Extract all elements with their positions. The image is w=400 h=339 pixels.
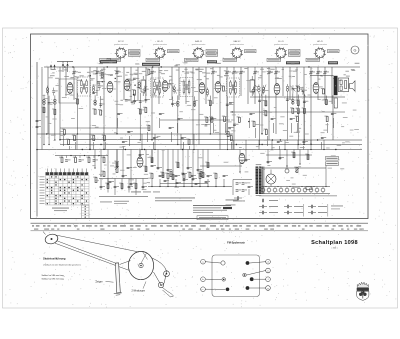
AF network part 2	[105, 183, 109, 189]
wire: drop below ground bus x=246	[245, 150, 247, 163]
coupling coil L46	[138, 80, 141, 89]
junction dot low 21	[239, 171, 240, 172]
antenna coupling capacitor C1	[36, 120, 41, 122]
wire: tone rail	[55, 155, 108, 157]
junction dot 2	[48, 144, 49, 145]
wire: drop x=212	[213, 123, 215, 133]
voltage label box of V5	[267, 58, 281, 61]
resistor R304	[75, 98, 79, 104]
resistor R54	[181, 173, 185, 179]
volume potentiometer R30	[114, 166, 119, 173]
wire: drop to rail x=49.0	[48, 106, 50, 144]
wire: AF coupling	[151, 150, 153, 164]
wire: inter-bus drop x=155	[154, 134, 156, 150]
grid resistor R519	[321, 88, 325, 94]
resistor R58	[213, 173, 217, 179]
AF network part 6	[133, 183, 137, 189]
wire: AF drop x=136	[135, 179, 137, 196]
parts list strip top rule	[31, 222, 369, 224]
wire: feeder from HT bus at x=255	[254, 67, 256, 104]
AF network part 1	[100, 186, 105, 188]
wire: drop x=170	[171, 132, 173, 142]
wire: lower link rail right	[266, 154, 312, 156]
wire: drop below ground bus x=152	[151, 150, 153, 164]
switch table contact dots	[47, 176, 88, 204]
detector coil L9	[250, 76, 255, 96]
IF transformer S1	[78, 77, 91, 96]
wire: inter-bus drop x=181	[180, 134, 182, 150]
wire: pin link 14	[261, 85, 266, 96]
tone network part 5	[79, 156, 84, 162]
capacitor C114	[181, 137, 186, 139]
wire: AVC sub rail	[60, 127, 150, 129]
wire: feeder from HT bus at x=193	[192, 67, 194, 145]
wire: bottom ground bus	[99, 196, 148, 198]
wire: feeder from HT bus at x=66	[65, 67, 67, 96]
FM unit solder lug G2	[246, 286, 250, 290]
svg-text:EAF 41: EAF 41	[195, 40, 203, 43]
coupling capacitor C46	[151, 165, 156, 167]
resistor R103	[72, 135, 76, 141]
svg-text:Seillauf ca 580 mm lang: Seillauf ca 580 mm lang	[42, 275, 65, 277]
capacitor C317	[286, 99, 291, 101]
resistor R109	[146, 125, 150, 131]
second resistor R345	[92, 108, 96, 114]
FM unit solder lug D	[246, 261, 250, 265]
capacitor C320	[303, 101, 308, 103]
junction dot dial bus x=224	[223, 186, 224, 187]
junction dot low 25	[286, 165, 287, 166]
AF amplifier tube V7	[137, 157, 143, 167]
mixer area extra parts	[90, 69, 150, 103]
wire: drop x=128	[129, 136, 131, 146]
wire: drop below ground bus x=280	[279, 150, 281, 161]
trimmer capacitor C72	[150, 71, 156, 75]
motorboard label row	[131, 191, 160, 194]
svg-text:EC 92: EC 92	[118, 41, 124, 43]
wire: drop below ground bus x=300	[299, 150, 301, 165]
antenna series capacitor C2	[36, 126, 41, 128]
node G (circled letter)	[351, 46, 359, 54]
wire: component stub x=145.9	[145, 94, 147, 104]
tone network part 6	[84, 155, 85, 156]
FM unit terminal d (circled)	[250, 259, 271, 264]
coupling coil L53	[258, 85, 261, 94]
capacitor C410	[157, 167, 162, 169]
capacitor C417	[192, 178, 197, 180]
voltage label box of V3	[185, 58, 199, 61]
voltage selector label box	[326, 162, 339, 166]
parts list strip text row 1	[32, 225, 361, 226]
wire: inter-bus drop x=90	[89, 134, 91, 150]
resistor R414	[175, 162, 179, 168]
wire: drop x=68	[69, 146, 71, 150]
wire: drop below ground bus x=183	[182, 150, 184, 177]
tone network part 2	[65, 156, 70, 162]
wire: component stub x=177.8	[177, 95, 179, 107]
coupling coil L43	[92, 84, 95, 93]
mains voltage note text	[226, 200, 239, 206]
switch table row labels	[40, 176, 45, 204]
IF transformer S2	[151, 78, 164, 97]
FM unit terminal c (circled)	[201, 287, 226, 292]
wire: component stub x=134.6	[134, 94, 136, 105]
coupling coil L55	[286, 84, 289, 93]
resistor R115	[186, 139, 190, 145]
trimmer capacitor C67	[115, 71, 121, 75]
capacitor C307	[133, 100, 138, 102]
capacitor C127	[321, 137, 326, 139]
capacitor C107	[122, 141, 127, 143]
trimmer capacitor C96	[323, 71, 329, 75]
wire: feeder from HT bus at x=325	[324, 67, 326, 104]
pin connection label box of V6	[328, 50, 340, 53]
resistor R420	[205, 162, 209, 168]
wire: drop to dial-lamp bus x=208	[207, 179, 209, 187]
svg-text:( 306 ): ( 306 )	[332, 247, 338, 249]
capacitor C302	[48, 102, 53, 104]
capacitor C124	[290, 118, 295, 120]
wire: drop below ground bus x=131	[130, 150, 132, 187]
junction dot dial bus x=152	[151, 186, 152, 187]
antenna terminal group	[50, 62, 73, 73]
coupling coil L50	[206, 88, 209, 97]
wire: inter-bus drop x=233	[232, 140, 234, 150]
junction dot interbus x=142	[141, 149, 142, 150]
wire: feeder from HT bus at x=304	[303, 67, 305, 145]
wire: AVC bus	[37, 133, 233, 135]
capacitor C306	[99, 104, 104, 106]
grid resistor R505	[132, 89, 136, 95]
capacitor C113	[177, 118, 182, 120]
wire: drop x=158	[159, 118, 161, 128]
wire: left rail x=42	[41, 67, 43, 150]
wire: component stub x=265.9	[265, 95, 267, 107]
wire: component stub x=210.3	[209, 96, 211, 107]
resistor R52	[165, 173, 169, 179]
wire: feeder from HT bus at x=318	[317, 67, 319, 100]
wire: drop to rail x=298.2	[297, 106, 299, 144]
tube base diagram V2 EF 41 (viewed from below)	[153, 41, 167, 59]
junction dots on buses	[46, 66, 336, 150]
wire: drop to dial-lamp bus x=168	[167, 179, 169, 187]
wire: feeder from HT bus at x=269	[268, 67, 270, 140]
dial cord: tuning shaft pulley	[43, 232, 59, 246]
wire: feeder from HT bus at x=179	[178, 67, 180, 100]
junction dot 3	[54, 139, 55, 140]
antenna input wire	[36, 62, 38, 217]
resistor R313	[208, 100, 212, 106]
dial cord: tuning drum	[128, 251, 153, 279]
junction dot interbus x=194	[193, 149, 194, 150]
second resistor R343	[52, 109, 56, 115]
AF network part 5	[128, 186, 133, 188]
junction dot low 1	[94, 167, 95, 168]
capacitor C51	[159, 175, 164, 177]
wire: AF drop x=122	[121, 179, 123, 191]
FM unit terminal g (circled)	[250, 286, 271, 291]
diode section V4b	[215, 82, 221, 93]
capacitor C422	[245, 159, 250, 161]
svg-text:Schaltplan 1098: Schaltplan 1098	[311, 240, 358, 246]
wire: top HT bus	[44, 66, 360, 68]
second resistor R358	[290, 107, 294, 113]
tube base diagram V4 EAF 42 (viewed from below)	[230, 40, 244, 59]
printing note text block	[193, 205, 232, 213]
FM unit terminal e (circled)	[247, 268, 271, 275]
rectifier V6	[313, 83, 319, 94]
resistor R413	[170, 174, 174, 180]
grid resistor R511	[221, 85, 225, 91]
mains input parts group	[233, 180, 253, 196]
wire: HT to Entbrummer boxes	[261, 167, 326, 169]
second resistor R360	[302, 108, 306, 114]
svg-text:EF 41: EF 41	[157, 41, 163, 43]
tone network part 8	[93, 156, 98, 162]
waveband switch contact table grid	[46, 176, 90, 206]
UKW tuner dashed enclosure	[59, 79, 77, 103]
wire: drop to dial-lamp bus x=192	[191, 179, 193, 187]
wire: feeder from HT bus at x=159	[158, 67, 160, 104]
junction dot on feeder x=227	[226, 133, 228, 135]
pentode V2	[107, 82, 113, 93]
wire: drop below ground bus x=193	[192, 150, 194, 182]
section label box Netzteil	[328, 61, 338, 64]
wire: output transformer drop	[332, 95, 334, 140]
wire: drop to dial-lamp bus x=224	[223, 179, 225, 187]
wire: drop below ground bus x=240	[239, 150, 241, 173]
resistor R419	[200, 172, 204, 178]
capacitor legend columns	[259, 199, 328, 217]
wire: pin link 6	[137, 87, 142, 88]
capacitor C126	[302, 141, 307, 143]
grid capacitor C518	[302, 87, 307, 95]
wire: component stub x=54.9	[54, 95, 56, 105]
wire: AF tube anode	[139, 150, 141, 158]
IF transformer S4	[227, 78, 240, 97]
capacitor C123	[277, 141, 282, 143]
wire: anode line to output transformer	[310, 75, 334, 77]
capacitor C59	[223, 175, 228, 177]
capacitor C57	[207, 175, 212, 177]
parts list strip text row 2	[34, 228, 364, 231]
junction dot dial bus x=168	[167, 186, 168, 187]
wire: screen bus	[250, 96, 345, 98]
second resistor R356	[263, 110, 267, 116]
wire: AF drop x=143	[142, 179, 144, 191]
second resistor R341	[41, 107, 45, 113]
detector area extra parts	[204, 102, 249, 136]
resistor R32	[93, 177, 97, 183]
Gedruckt in Deutschland box	[197, 216, 228, 220]
svg-text:Skalenseilführung: Skalenseilführung	[43, 256, 66, 260]
tube base diagram V5 EL 41 (viewed from below)	[274, 41, 288, 59]
capacitor C122	[271, 118, 276, 120]
FM coil unit outline box	[212, 255, 260, 297]
coil L21	[177, 101, 180, 106]
wire: drop to dial-lamp bus x=200	[199, 179, 201, 187]
capacitor C106	[117, 113, 122, 115]
junction dot dial bus x=216	[215, 186, 216, 187]
FM unit solder lug B	[222, 278, 226, 282]
trimmer capacitor C63	[72, 71, 78, 75]
wire: heater bus	[259, 186, 330, 188]
junction dot dial bus x=160	[159, 186, 160, 187]
wire: pin link 7	[142, 86, 147, 90]
wire: AF drop x=115	[114, 179, 116, 196]
mains label box	[326, 157, 339, 161]
resistor R50	[149, 173, 153, 179]
junction dot interbus x=155	[154, 149, 155, 150]
parts list strip bottom rule	[31, 230, 369, 232]
FM unit solder lug F	[250, 277, 254, 281]
wire: drop x=62	[63, 136, 65, 146]
wire: feeder from HT bus at x=283	[282, 67, 284, 96]
dial cord: drum arm and idler pulleys	[152, 258, 174, 297]
note text lines (spring tension)	[155, 198, 195, 202]
antenna terminal label box	[100, 59, 111, 62]
wire: drop x=332	[333, 118, 335, 128]
wire: pin link 17	[296, 86, 301, 89]
wire: feeder from HT bus at x=297	[296, 67, 298, 104]
coil L28	[292, 99, 295, 104]
wire: component stub x=140.2	[139, 93, 141, 105]
coil L15	[94, 100, 97, 105]
capacitor C416	[187, 167, 192, 169]
wire: pin link 9	[172, 85, 177, 93]
wire: inter-bus drop x=272	[271, 140, 273, 150]
wire: drop below ground bus x=101	[100, 150, 102, 177]
section label box Mischstufe	[142, 63, 160, 66]
tone network part 10	[101, 156, 105, 163]
grid capacitor C504	[98, 83, 103, 91]
junction on antenna line	[36, 149, 38, 151]
wire: component stub x=95.1	[94, 95, 96, 106]
wire: component stub x=326.3	[325, 96, 327, 106]
junction dot on feeder x=262	[261, 133, 263, 135]
wire: feeder from HT bus at x=234	[233, 67, 235, 150]
wire: drop to dial-lamp bus x=152	[151, 179, 153, 187]
pin connection label box of V1	[129, 50, 141, 57]
trimmer capacitor C83	[232, 71, 238, 75]
trimmer capacitor C84	[239, 71, 245, 75]
wire: component stub x=298.2	[297, 95, 299, 107]
wire: component stub x=77.5	[77, 93, 79, 105]
wire: drop below ground bus x=208	[207, 150, 209, 169]
wire: feeder from HT bus at x=131	[130, 67, 132, 100]
lower AF tube V7b	[239, 153, 245, 163]
AF network part 4	[119, 183, 123, 189]
junction dot 11	[177, 144, 178, 145]
svg-text:Seillauf ca 695 mm lang: Seillauf ca 695 mm lang	[42, 279, 65, 281]
note text under switch table	[52, 208, 69, 211]
voltage label box of V1	[107, 58, 121, 61]
wire: drop x=224	[225, 123, 227, 133]
coupling coil L49	[173, 85, 176, 94]
wire: drop below ground bus x=168	[167, 150, 169, 173]
wire: cathode bus	[60, 144, 362, 146]
capacitor C407	[139, 154, 144, 156]
grid capacitor C508	[168, 80, 173, 88]
tone network part 7	[86, 156, 90, 163]
capacitor C129	[331, 113, 336, 115]
wire: pin link 16	[290, 86, 295, 92]
wire: dial lamp bus	[148, 186, 232, 188]
wire: heater strip lower rail	[259, 192, 330, 194]
capacitor C310	[171, 103, 176, 105]
capacitor C108	[127, 131, 132, 133]
tube base diagram V3 EAF 41 (viewed from below)	[192, 40, 206, 59]
second resistor R346	[98, 109, 102, 115]
wire: inter-bus drop x=142	[141, 134, 143, 150]
AF network part 3	[114, 186, 119, 188]
FM unit solder lug C	[226, 288, 230, 292]
wire: drop x=104	[105, 142, 107, 150]
svg-text:( Seillauf von der Skalenschei: ( Seillauf von der Skalenscheibe gesehen…	[43, 264, 81, 266]
tube base diagram V6 AZ 41 (viewed from below)	[313, 40, 327, 59]
resistor R428	[305, 154, 309, 160]
wire: drop below ground bus x=178	[177, 150, 179, 169]
wire: drop below ground bus x=188	[187, 150, 189, 171]
wire: drop to rail x=259.6	[259, 104, 261, 145]
grid capacitor C507	[143, 86, 148, 94]
wire: inter-bus drop x=194	[193, 134, 195, 150]
output pentode V5	[274, 84, 280, 95]
svg-text:EAF 42: EAF 42	[234, 40, 242, 43]
legend item left	[233, 196, 245, 201]
switch wires rising from table	[47, 169, 86, 173]
capacitor C116	[211, 118, 216, 120]
wire: component stub x=259.6	[259, 93, 261, 104]
wire: drop below ground bus x=140	[139, 150, 141, 158]
IF transformer S3	[180, 78, 193, 97]
wire: drop below ground bus x=95	[94, 150, 96, 169]
wire: drop x=278	[279, 146, 281, 150]
pin connection label box of V2	[168, 50, 180, 53]
resistor R404	[114, 161, 118, 167]
junction dot low 3	[107, 183, 108, 184]
wire: inter-bus drop x=259	[258, 140, 260, 150]
pin connection label box of V3	[206, 50, 218, 57]
section label box UKW	[100, 60, 117, 63]
svg-text:Zeiger: Zeiger	[96, 280, 103, 283]
coupling coil L41	[46, 86, 49, 95]
wire: drop x=116	[117, 118, 119, 128]
wire: drop x=122	[123, 146, 125, 150]
wire: feeder from HT bus at x=241	[240, 67, 242, 96]
junction dot dial bus x=184	[183, 186, 184, 187]
output coupling box	[334, 98, 337, 108]
wire: drop below ground bus x=203	[202, 150, 204, 179]
junction dot 19	[298, 144, 299, 145]
junction dot low 2	[100, 175, 101, 176]
junction dot 1	[43, 144, 44, 145]
switch wafer connector strip	[82, 205, 90, 219]
coil L22	[193, 101, 196, 106]
trimmer capacitor C80	[211, 71, 217, 75]
resistor R121	[264, 129, 268, 135]
wire: component stub x=227.2	[226, 96, 228, 108]
second resistor R349	[143, 107, 147, 113]
Philips crest emblem	[357, 282, 369, 300]
output transformer secondary box	[338, 78, 349, 92]
capacitor C55	[191, 175, 196, 177]
dial cord: cord runs	[55, 235, 139, 270]
wire: feeder from HT bus at x=220	[219, 67, 221, 150]
junction dot low 27	[299, 163, 300, 164]
junction dot dial bus x=192	[191, 186, 192, 187]
wire: feeder from HT bus at x=213	[212, 67, 214, 104]
